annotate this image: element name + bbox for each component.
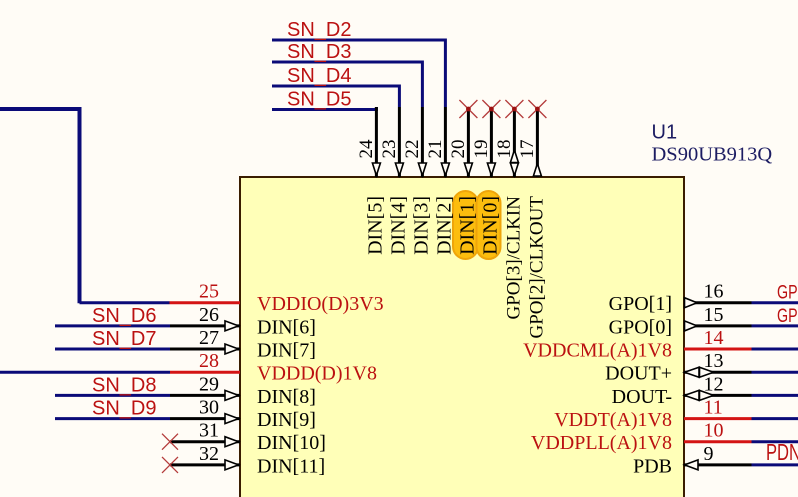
svg-text:DIN[8]: DIN[8] [257,386,316,408]
svg-text:26: 26 [199,304,219,326]
svg-text:DIN[2]: DIN[2] [433,196,455,255]
svg-text:DS90UB913Q: DS90UB913Q [652,144,773,166]
svg-text:14: 14 [704,327,724,349]
svg-text:18: 18 [494,139,515,158]
svg-text:PDB: PDB [633,455,672,477]
svg-text:29: 29 [199,373,219,395]
svg-text:DIN[0]: DIN[0] [479,196,501,255]
svg-text:GPO[1]: GPO[1] [609,293,672,315]
svg-text:10: 10 [704,420,724,442]
svg-text:PDNB: PDNB [766,440,798,465]
svg-text:31: 31 [199,420,219,442]
svg-text:VDDT(A)1V8: VDDT(A)1V8 [554,409,672,431]
svg-text:21: 21 [425,140,446,159]
svg-text:17: 17 [517,140,538,159]
svg-text:20: 20 [448,140,469,159]
svg-text:19: 19 [471,140,492,159]
svg-text:DIN[7]: DIN[7] [257,340,316,362]
svg-text:DIN[6]: DIN[6] [257,316,316,338]
svg-text:SN_D2: SN_D2 [287,19,351,41]
svg-text:11: 11 [704,397,723,419]
svg-text:U1: U1 [652,122,678,144]
svg-text:SN_D9: SN_D9 [92,398,156,420]
svg-text:DIN[5]: DIN[5] [364,196,386,255]
svg-text:32: 32 [199,443,219,465]
svg-text:13: 13 [704,350,724,372]
svg-text:DOUT-: DOUT- [612,386,672,408]
svg-text:25: 25 [199,281,219,303]
svg-text:GPO[2]/CLKOUT: GPO[2]/CLKOUT [526,196,547,339]
svg-text:SN_D5: SN_D5 [287,89,351,111]
svg-text:DIN[11]: DIN[11] [257,455,325,477]
svg-text:VDDD(D)1V8: VDDD(D)1V8 [257,363,377,385]
svg-text:27: 27 [199,327,219,349]
svg-text:SN_D4: SN_D4 [287,65,351,87]
svg-text:SN_D7: SN_D7 [92,328,156,350]
svg-text:24: 24 [356,139,377,159]
svg-text:12: 12 [704,373,724,395]
svg-text:DIN[1]: DIN[1] [456,196,478,255]
svg-text:GPO: GPO [777,305,798,326]
svg-text:SN_D3: SN_D3 [287,41,351,63]
svg-text:SN_D8: SN_D8 [92,374,156,396]
svg-text:DIN[9]: DIN[9] [257,409,316,431]
svg-text:VDDCML(A)1V8: VDDCML(A)1V8 [523,340,672,362]
svg-text:16: 16 [704,281,724,303]
svg-text:DIN[3]: DIN[3] [410,196,432,255]
svg-text:DIN[4]: DIN[4] [387,196,409,255]
svg-text:9: 9 [704,443,714,465]
svg-text:28: 28 [199,350,219,372]
svg-text:22: 22 [402,140,423,159]
svg-text:DOUT+: DOUT+ [605,363,672,385]
svg-text:VDDPLL(A)1V8: VDDPLL(A)1V8 [531,432,672,454]
svg-text:GPO[3]/CLKIN: GPO[3]/CLKIN [503,196,524,320]
svg-text:VDDIO(D)3V3: VDDIO(D)3V3 [257,293,384,315]
svg-text:15: 15 [704,304,724,326]
svg-text:SN_D6: SN_D6 [92,305,156,327]
svg-text:DIN[10]: DIN[10] [257,432,326,454]
svg-text:30: 30 [199,397,219,419]
svg-text:GPO: GPO [777,282,798,303]
svg-text:GPO[0]: GPO[0] [609,316,672,338]
svg-text:23: 23 [379,140,400,159]
